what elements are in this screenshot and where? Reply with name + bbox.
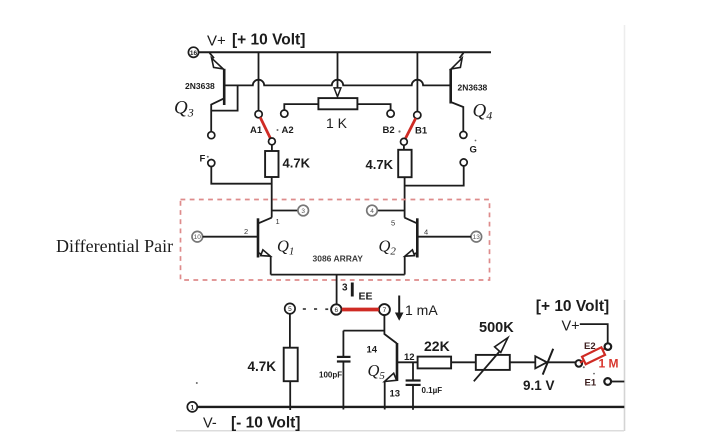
svg-text:E2: E2 — [584, 341, 596, 352]
resistor 22K — [418, 357, 452, 369]
node G top — [460, 131, 467, 138]
switch A red — [260, 117, 270, 138]
node pin 10 — [192, 231, 203, 242]
svg-text:3086 ARRAY: 3086 ARRAY — [313, 254, 364, 264]
svg-text:2N3638: 2N3638 — [185, 81, 215, 91]
svg-text:4.7K: 4.7K — [283, 155, 311, 170]
svg-text:3: 3 — [301, 208, 305, 215]
wire F to RA bottom — [211, 167, 271, 184]
wiper arrow — [334, 88, 341, 97]
svg-text:A2: A2 — [282, 125, 294, 136]
svg-text:1 M: 1 M — [599, 356, 619, 370]
svg-text:22K: 22K — [424, 338, 450, 354]
transistor Q2 — [377, 211, 417, 275]
svg-text:14: 14 — [367, 344, 378, 355]
svg-text:[- 10 Volt]: [- 10 Volt] — [231, 414, 300, 431]
zener diode 9.1V — [535, 349, 575, 375]
svg-text:EE: EE — [359, 291, 373, 303]
transistor Q5 — [385, 343, 418, 410]
resistor RA 4.7K left — [265, 145, 278, 218]
wire branch to 100pF — [343, 330, 384, 332]
svg-text:3: 3 — [342, 283, 348, 294]
wire G to RB bottom — [405, 166, 464, 186]
page edge artifact — [176, 25, 625, 431]
node pin 7 — [379, 304, 390, 315]
capacitor 0.1uF — [406, 362, 421, 410]
svg-text:Q5: Q5 — [368, 361, 386, 382]
svg-text:F: F — [200, 154, 206, 165]
wire base bus with hops — [224, 80, 450, 86]
svg-text:5: 5 — [288, 306, 292, 313]
svg-text:4: 4 — [424, 228, 428, 237]
transistor Q3 — [210, 53, 225, 132]
transistor Q1 — [258, 211, 298, 275]
svg-text:100pF: 100pF — [319, 371, 342, 380]
wire pin10 to Q1 base — [203, 236, 257, 238]
resistor 1M red — [580, 347, 607, 364]
node F bottom — [208, 160, 215, 167]
svg-text:[+ 10 Volt]: [+ 10 Volt] — [232, 31, 305, 48]
svg-text:E1: E1 — [585, 378, 597, 389]
svg-text:1: 1 — [190, 404, 194, 411]
wire rail to B1 — [416, 52, 418, 111]
capacitor 100pF — [337, 331, 351, 410]
svg-text:A1: A1 — [250, 125, 263, 136]
svg-text:5: 5 — [391, 219, 395, 228]
node B lower contact — [401, 138, 408, 145]
wire V- rail — [197, 406, 624, 408]
differential pair dashed box — [181, 200, 490, 281]
node A lower contact — [269, 138, 276, 145]
terminal 16 — [188, 47, 198, 57]
svg-text:2: 2 — [244, 227, 248, 236]
svg-text:4: 4 — [370, 208, 374, 215]
label 3 IEE — [342, 280, 373, 303]
dots between 5 and 6 — [303, 308, 328, 310]
svg-text:V+: V+ — [207, 33, 226, 50]
svg-text:V-: V- — [203, 416, 217, 432]
wire E2 to V+ — [580, 324, 608, 343]
svg-text:16: 16 — [190, 50, 198, 57]
wire Q2 base to pin13 — [417, 236, 471, 238]
svg-text:10: 10 — [194, 234, 202, 241]
transistor Q4 — [451, 53, 464, 132]
svg-text:Differential Pair: Differential Pair — [56, 236, 173, 256]
potentiometer 500K — [474, 338, 510, 382]
svg-text:1 mA: 1 mA — [405, 302, 438, 318]
svg-text:I: I — [350, 280, 356, 302]
wire rail to A1 — [258, 52, 260, 110]
node pin 6 — [331, 304, 341, 314]
node F top — [208, 132, 215, 139]
scan specks — [196, 129, 595, 384]
svg-text:4.7K: 4.7K — [366, 157, 394, 172]
svg-text:500K: 500K — [479, 320, 514, 336]
svg-text:6: 6 — [334, 307, 338, 314]
red jumper 6-7 — [342, 308, 379, 312]
svg-text:1: 1 — [276, 217, 280, 226]
wire E1 stub — [611, 381, 624, 383]
node zener out — [576, 360, 583, 367]
svg-text:Q3: Q3 — [174, 98, 194, 120]
wire V+ rail — [198, 51, 491, 53]
svg-text:Q2: Q2 — [379, 237, 397, 258]
svg-text:4.7K: 4.7K — [248, 359, 277, 374]
resistor RB 4.7K right — [398, 145, 411, 217]
node pin 13 — [471, 231, 482, 242]
svg-text:1 K: 1 K — [326, 115, 348, 131]
svg-text:13: 13 — [473, 234, 481, 241]
svg-text:G: G — [470, 145, 477, 156]
svg-text:V+: V+ — [562, 319, 580, 335]
node pin 5 bottom — [285, 303, 295, 313]
resistor RE 4.7K — [284, 348, 298, 382]
svg-text:2N3638: 2N3638 — [458, 82, 488, 92]
wire emitter tap to pin6 — [336, 275, 338, 305]
wire 22K to pot — [451, 361, 476, 363]
node pin 3 — [298, 205, 309, 216]
svg-text:Q1: Q1 — [277, 237, 294, 258]
wire pot to zener — [510, 361, 536, 363]
wire rail to wiper — [337, 52, 339, 88]
svg-text:13: 13 — [390, 388, 401, 399]
svg-text:9.1 V: 9.1 V — [523, 378, 555, 393]
potentiometer 1K — [318, 98, 357, 109]
arrow 1mA — [395, 296, 404, 321]
switch B red — [405, 118, 415, 139]
wire Q3 base-collector loop — [211, 85, 237, 110]
node B2 — [387, 110, 394, 117]
wire pot left lead — [284, 104, 318, 110]
svg-text:B1: B1 — [415, 126, 428, 137]
svg-text:Q4: Q4 — [473, 101, 493, 123]
node A2 — [281, 110, 288, 117]
wire RE to rail — [289, 381, 291, 410]
node E2 — [605, 343, 612, 350]
wire pin7 down — [384, 315, 396, 343]
svg-text:[+ 10 Volt]: [+ 10 Volt] — [536, 298, 609, 315]
wire common emitters — [271, 274, 405, 276]
terminal 1 — [187, 402, 197, 412]
wire pot right lead — [357, 104, 390, 110]
node G bottom — [460, 159, 467, 166]
node pin 4 — [367, 205, 378, 216]
svg-text:12: 12 — [404, 352, 415, 363]
wire pin5 to RE — [289, 314, 291, 348]
svg-text:B2: B2 — [383, 125, 395, 136]
node B1 — [414, 112, 421, 119]
node A1 — [255, 111, 262, 118]
node E1 — [604, 378, 611, 385]
svg-text:7: 7 — [383, 307, 387, 314]
svg-text:0.1µF: 0.1µF — [422, 386, 443, 395]
